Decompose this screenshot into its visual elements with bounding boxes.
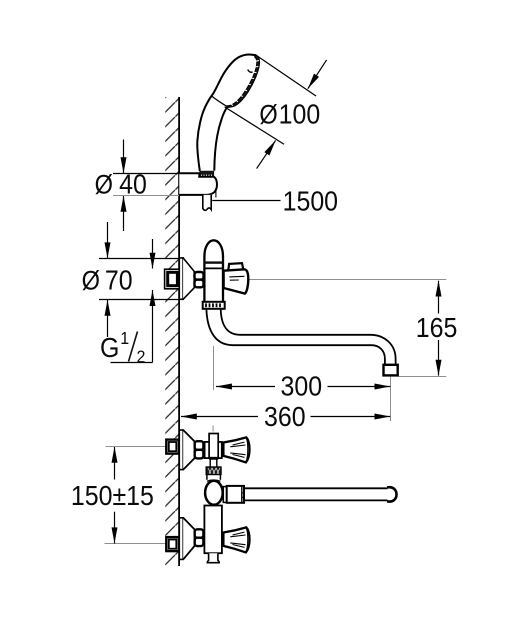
svg-text:1500: 1500 — [283, 185, 338, 217]
svg-text:2: 2 — [137, 347, 146, 367]
svg-text:Ø70: Ø70 — [82, 264, 133, 296]
svg-text:360: 360 — [264, 401, 306, 433]
svg-text:Ø100: Ø100 — [259, 98, 320, 130]
svg-text:G: G — [100, 332, 119, 364]
svg-text:1: 1 — [120, 328, 129, 348]
svg-text:165: 165 — [416, 312, 458, 344]
svg-text:150±15: 150±15 — [71, 480, 154, 512]
svg-text:300: 300 — [281, 370, 323, 402]
svg-text:Ø40: Ø40 — [95, 168, 147, 200]
